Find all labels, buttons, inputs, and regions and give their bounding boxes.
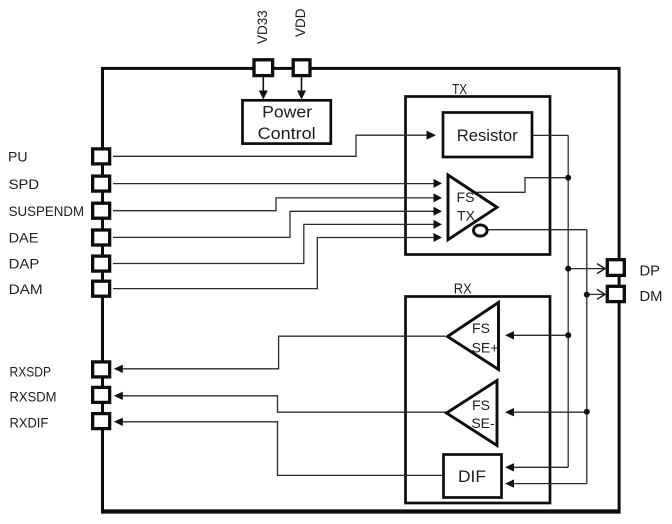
wire PU to Resistor [113, 135, 428, 156]
pin VDD [293, 60, 310, 76]
junction DP pin tap [565, 266, 571, 272]
arrow VDD to Power Control [301, 77, 303, 92]
wire FS SE- output to RXSDM [122, 396, 447, 412]
wire DM net to DIF input 2 [512, 483, 587, 485]
svg-text:Control: Control [258, 125, 316, 143]
wire DM net to FS SE- input [511, 411, 587, 413]
svg-text:DAP: DAP [9, 256, 40, 272]
svg-text:RX: RX [454, 282, 472, 298]
pin SPD [93, 176, 110, 191]
pin RXDIF [93, 414, 110, 429]
wire DAP to FS TX input 4 [113, 224, 435, 263]
TX block [406, 97, 551, 255]
net DM vertical [586, 230, 588, 484]
resistor block R [443, 113, 532, 158]
svg-text:FS: FS [457, 189, 475, 205]
outer chip boundary [103, 68, 620, 511]
wire FS TX output to DP net [475, 178, 568, 193]
wire DP net to FS SE+ input [511, 334, 568, 336]
pin DP [607, 260, 624, 276]
pin DAM [93, 281, 110, 296]
junction DM pin tap [584, 292, 590, 298]
pin SUSPENDM [93, 203, 110, 218]
FS SE+ receiver triangle [448, 303, 499, 370]
svg-text:SUSPENDM: SUSPENDM [9, 203, 85, 219]
wire SUSPENDM to FS TX input 2 [113, 198, 435, 211]
svg-text:TX: TX [452, 82, 467, 98]
pin DAE [93, 230, 110, 245]
svg-text:DP: DP [640, 263, 661, 279]
svg-text:RXSDM: RXSDM [10, 388, 57, 404]
pin DAP [93, 256, 110, 271]
pin VD33 [254, 60, 273, 76]
svg-text:SPD: SPD [9, 176, 39, 192]
pin RXSDM [93, 387, 110, 402]
inverter bubble [474, 225, 488, 236]
junction SE+ tap [565, 332, 571, 338]
wire DIF output to RXDIF [122, 422, 444, 476]
wire FS SE+ output to RXSDP [122, 336, 445, 369]
svg-text:RXSDP: RXSDP [10, 363, 52, 379]
wire to DM pin [587, 293, 604, 295]
junction SE- tap [584, 409, 590, 415]
svg-text:PU: PU [8, 149, 28, 165]
svg-text:FS: FS [472, 320, 490, 336]
wire SPD to FS TX input 1 [113, 183, 435, 185]
svg-text:DAE: DAE [9, 230, 39, 246]
junction DP net / FS output [565, 175, 571, 181]
outer boundary bottom edge (thicker) [101, 509, 621, 513]
svg-text:SE-: SE- [471, 415, 495, 431]
svg-text:RXDIF: RXDIF [10, 415, 49, 431]
svg-text:VDD: VDD [293, 8, 308, 37]
svg-text:Power: Power [262, 104, 313, 122]
RX block [406, 297, 551, 504]
pin PU [93, 149, 110, 164]
pin RXSDP [93, 362, 110, 377]
power control block [243, 100, 331, 143]
wire bubble output to DM net [487, 229, 587, 231]
svg-text:DAM: DAM [9, 281, 43, 297]
wire DAM to FS TX input 5 [113, 238, 435, 289]
arrow VD33 to Power Control [262, 77, 264, 92]
wire Resistor output to DP net [532, 134, 568, 136]
svg-text:DM: DM [640, 289, 663, 305]
wire DP net to DIF input 1 [512, 466, 568, 468]
svg-text:DIF: DIF [458, 467, 486, 486]
FS SE- receiver triangle [447, 381, 498, 446]
svg-text:VD33: VD33 [255, 10, 270, 44]
svg-text:TX: TX [457, 208, 476, 224]
svg-text:Resistor: Resistor [457, 126, 518, 145]
svg-text:FS: FS [472, 397, 490, 413]
wire DAE to FS TX input 3 [113, 211, 435, 237]
wire to DP pin [568, 268, 604, 270]
FS TX buffer triangle [448, 175, 497, 240]
pin DM [607, 286, 624, 301]
DIF block [444, 455, 502, 498]
net DP vertical [567, 135, 569, 467]
svg-text:SE+: SE+ [472, 340, 499, 356]
